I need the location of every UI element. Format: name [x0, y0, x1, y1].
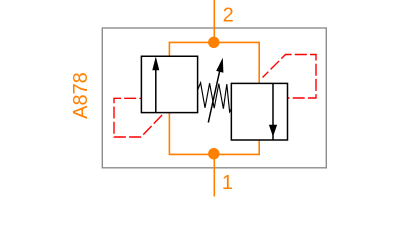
svg-text:A878: A878 — [70, 72, 92, 119]
svg-text:2: 2 — [223, 5, 234, 27]
svg-text:1: 1 — [222, 172, 233, 194]
